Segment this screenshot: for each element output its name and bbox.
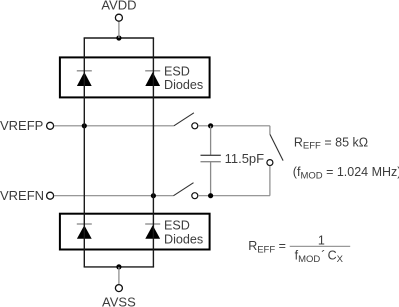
svg-text:ESD: ESD [164,65,190,79]
svg-text:REFF =: REFF = [248,239,286,255]
svg-text:11.5pF: 11.5pF [225,151,265,166]
svg-text:1: 1 [318,234,325,248]
svg-text:VREFN: VREFN [0,188,44,203]
svg-text:AVSS: AVSS [102,294,136,307]
svg-text:(fMOD = 1.024 MHz): (fMOD = 1.024 MHz) [293,165,399,181]
svg-text:Diodes: Diodes [164,78,203,92]
svg-text:AVDD: AVDD [101,0,136,12]
svg-text:VREFP: VREFP [0,118,43,133]
svg-text:fMOD´CX: fMOD´CX [295,249,344,265]
svg-text:Diodes: Diodes [164,233,203,247]
svg-text:REFF = 85 kΩ: REFF = 85 kΩ [294,135,368,151]
svg-text:ESD: ESD [164,218,190,232]
